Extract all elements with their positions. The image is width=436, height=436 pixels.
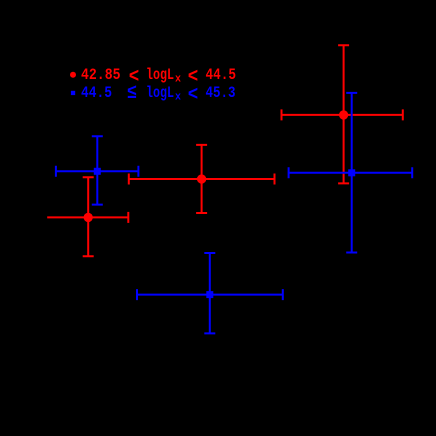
svg-text:logL: logL <box>146 66 174 84</box>
point C: red circle, middle <box>129 145 275 213</box>
point C x error caps <box>129 174 275 185</box>
point E y error caps <box>338 45 349 183</box>
point A x error caps <box>56 166 138 177</box>
point A: blue square, left <box>56 136 138 204</box>
point B y error bar <box>87 177 89 256</box>
point B: red circle, lower-left <box>47 177 128 256</box>
point C x error bar <box>129 178 275 180</box>
point C marker <box>197 174 206 183</box>
point D x error caps <box>289 167 413 178</box>
point A y error bar <box>96 136 98 204</box>
svg-text:45.3: 45.3 <box>206 84 236 102</box>
point E y error bar <box>343 45 345 183</box>
svg-text:x: x <box>175 74 181 86</box>
point C y error bar <box>201 145 203 213</box>
legend blue label: 44.5 <= logLx < 45.3 <box>81 82 236 107</box>
point B x error cap (right only) <box>127 212 129 223</box>
point F: blue square, bottom-middle <box>137 253 283 333</box>
point F y error caps <box>204 253 215 333</box>
point A x error bar <box>56 170 138 172</box>
point A marker <box>94 168 101 175</box>
point B y error caps <box>83 177 94 256</box>
point D y error caps <box>346 93 357 253</box>
svg-text:x: x <box>175 92 181 104</box>
point A y error caps <box>92 136 103 204</box>
point F x error bar <box>137 294 283 296</box>
legend blue marker <box>71 91 75 95</box>
point E x error caps <box>282 109 403 120</box>
point D: blue square, right <box>289 93 413 253</box>
point E marker <box>339 110 348 119</box>
svg-text:44.5: 44.5 <box>206 66 237 84</box>
point E: red circle, upper-right <box>282 45 403 183</box>
legend red marker <box>70 72 76 78</box>
svg-text:<: < <box>188 84 199 107</box>
svg-text:logL: logL <box>146 84 174 102</box>
point F x error caps <box>137 289 283 300</box>
point B marker <box>84 213 93 222</box>
point D marker <box>348 169 355 176</box>
point D x error bar <box>289 172 413 174</box>
point E x error bar <box>282 114 403 116</box>
point F marker <box>206 291 213 298</box>
legend red label: 42.85 < logLx < 44.5 <box>81 66 236 89</box>
svg-text:42.85: 42.85 <box>81 66 121 84</box>
point D y error bar <box>351 93 353 253</box>
point F y error bar <box>209 253 211 333</box>
point C y error caps <box>196 145 207 213</box>
svg-text:≤: ≤ <box>127 82 137 105</box>
svg-text:44.5: 44.5 <box>81 84 112 102</box>
point B x error bar <box>47 216 128 218</box>
